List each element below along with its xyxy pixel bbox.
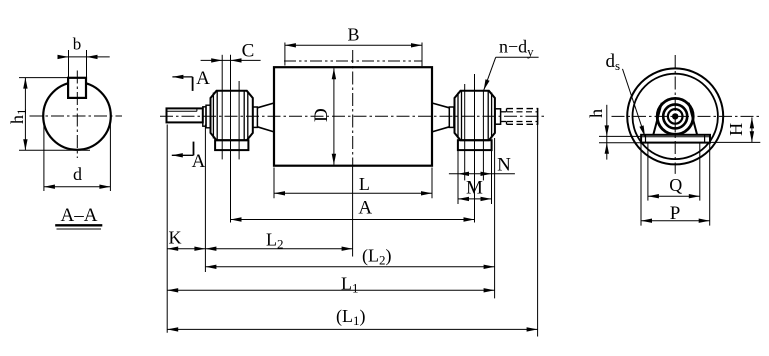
dimension (L2) <box>205 138 494 298</box>
shaft circle <box>43 82 111 150</box>
svg-text:H: H <box>726 123 746 136</box>
drum body <box>274 67 432 166</box>
right bolt lines <box>465 74 484 223</box>
dimension h <box>586 105 641 160</box>
bolt hole ticks <box>646 135 705 143</box>
dimension b <box>58 35 110 78</box>
label ds with leader <box>606 51 646 137</box>
drum vertical centerline <box>352 50 354 167</box>
svg-text:C: C <box>242 41 255 62</box>
bearing circles <box>657 98 693 134</box>
svg-text:(L2): (L2) <box>362 246 392 268</box>
dimension d <box>44 120 111 191</box>
keyway <box>68 78 86 98</box>
dimension N <box>449 151 515 205</box>
svg-text:A: A <box>358 198 372 219</box>
svg-text:A: A <box>192 151 206 172</box>
left bolt lines <box>222 55 239 223</box>
svg-text:d: d <box>73 164 82 184</box>
section mark A bottom <box>172 142 206 172</box>
svg-text:b: b <box>73 35 82 54</box>
dimension L <box>274 168 432 199</box>
belt phantom line <box>284 60 422 62</box>
left shaft step <box>203 107 206 126</box>
right shaft stub <box>495 108 538 125</box>
svg-text:h: h <box>586 109 606 118</box>
svg-text:(L1): (L1) <box>336 306 366 328</box>
left hub <box>253 107 258 127</box>
left cone <box>257 103 274 132</box>
base plate <box>641 135 710 143</box>
label n-dy with leader <box>484 37 539 91</box>
svg-text:M: M <box>466 178 483 199</box>
svg-text:Q: Q <box>669 175 682 195</box>
svg-text:D: D <box>311 108 332 122</box>
right bearing block <box>455 91 495 140</box>
svg-text:N: N <box>497 155 511 176</box>
left bearing block <box>211 91 253 140</box>
dimension L1 <box>167 274 494 296</box>
right bearing inner lines <box>458 91 492 140</box>
centerline vertical <box>76 71 78 159</box>
pedestal slants <box>653 103 697 135</box>
right cone <box>432 103 449 132</box>
base plate inner line <box>641 136 710 138</box>
dimension D <box>311 68 336 165</box>
dimension H <box>710 117 760 142</box>
section mark A top <box>172 68 210 91</box>
dimension A <box>231 198 475 222</box>
dimension M <box>458 178 492 202</box>
svg-text:P: P <box>670 203 681 224</box>
svg-text:A–A: A–A <box>61 205 98 226</box>
dimension P <box>641 143 710 226</box>
dimension B <box>285 25 422 67</box>
main centerline <box>160 115 547 117</box>
dimension (L1) <box>167 123 537 337</box>
dimension Q <box>648 143 700 201</box>
right view vertical centerline <box>674 55 676 174</box>
centerline horizontal <box>30 115 123 117</box>
svg-text:K: K <box>169 228 182 248</box>
dimension h1 <box>7 78 90 151</box>
svg-text:B: B <box>347 25 359 45</box>
pulley inner circle <box>633 74 718 159</box>
left bearing inner lines <box>213 91 247 140</box>
label A-A <box>55 205 102 229</box>
right hub <box>449 107 454 127</box>
right bearing base step <box>458 140 492 150</box>
pulley outer circle <box>627 68 723 164</box>
dimension C <box>201 41 261 63</box>
right view horizontal centerline <box>612 115 761 117</box>
svg-text:L: L <box>359 174 370 194</box>
svg-text:A: A <box>196 68 210 89</box>
dimension L2 <box>205 167 352 257</box>
dimension K <box>167 125 205 333</box>
left shaft <box>167 108 203 122</box>
left bearing base step <box>215 140 248 150</box>
